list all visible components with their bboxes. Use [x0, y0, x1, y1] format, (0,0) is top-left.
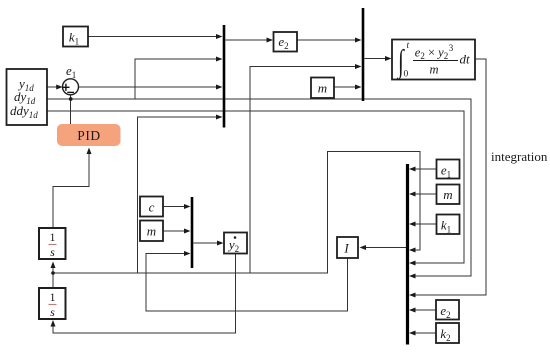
svg-text:PID: PID — [77, 128, 101, 143]
svg-text:integration: integration — [491, 149, 548, 164]
svg-text:1: 1 — [50, 230, 56, 244]
svg-text:c: c — [149, 200, 155, 215]
svg-text:s: s — [50, 245, 55, 259]
svg-text:I: I — [343, 241, 349, 256]
svg-text:t: t — [407, 41, 410, 51]
svg-text:s: s — [50, 305, 55, 319]
svg-text:m: m — [443, 187, 452, 202]
svg-text:0: 0 — [404, 70, 409, 80]
svg-text:1: 1 — [50, 290, 56, 304]
svg-text:dt: dt — [460, 52, 471, 67]
svg-text:m: m — [318, 81, 327, 96]
svg-text:m: m — [147, 224, 156, 239]
svg-text:m: m — [429, 63, 438, 77]
